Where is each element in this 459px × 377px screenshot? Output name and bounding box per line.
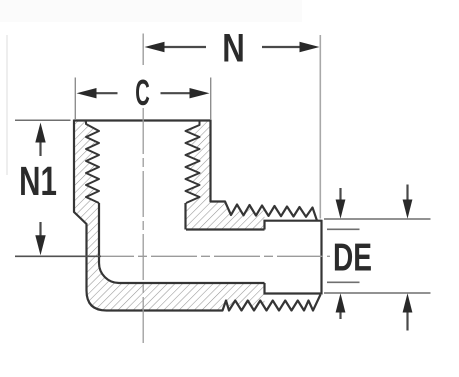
body outline: left outer wall, bottom face, bottom male threads <box>74 120 321 311</box>
body outline: bore bottom line <box>119 282 265 284</box>
vertical centerline <box>142 108 144 343</box>
svg-text:N: N <box>222 26 245 71</box>
faint top band artifact <box>0 0 302 22</box>
body outline: bottom thread root line and step <box>265 283 322 294</box>
DE arrow up far <box>406 310 408 331</box>
dimension DE extension line top <box>324 218 431 220</box>
svg-text:N1: N1 <box>19 158 57 204</box>
body outline: bore top line <box>186 228 265 230</box>
body outline: end face of side port <box>320 220 322 295</box>
dimension N1 arrowhead down <box>35 235 45 255</box>
dimension N arrowhead left <box>145 42 165 52</box>
dimension N1 shaft top <box>39 141 41 156</box>
dimension C shaft right <box>161 92 192 94</box>
hatched section: left and bottom wall <box>74 121 265 311</box>
dimension DE extension line bottom <box>324 292 431 294</box>
body outline: inner left wall and fillet <box>99 203 119 283</box>
female threads right wall <box>186 121 200 204</box>
body outline: right outer wall, step, top male threads <box>211 120 318 221</box>
body outline: inner right wall below threads <box>184 203 186 230</box>
dimension N1 extension line top <box>15 119 71 121</box>
dimension C extension line left <box>74 78 76 120</box>
dimension N1 shaft bottom <box>39 222 41 238</box>
DE inner stub line top <box>327 228 360 230</box>
horizontal centerline <box>88 255 330 257</box>
DE arrow down far <box>406 185 408 203</box>
dimension N shaft left <box>162 46 206 48</box>
dimension N1 arrowhead up <box>35 123 45 143</box>
DE arrow up near <box>339 310 341 319</box>
dimension C shaft left <box>95 92 118 94</box>
dimension C arrowhead right <box>190 88 210 98</box>
dimension N extension line left <box>142 34 144 66</box>
dimension C extension line right <box>210 78 212 120</box>
body outline: top face <box>74 119 211 121</box>
svg-text:C: C <box>135 73 149 114</box>
faint left edge line artifact <box>6 35 8 175</box>
female threads left wall <box>86 121 99 204</box>
DE inner stub line bottom <box>327 281 360 283</box>
dimension N shaft right <box>262 46 300 48</box>
DE arrow down near <box>339 188 341 202</box>
dimension C arrowhead left <box>77 88 97 98</box>
dimension N arrowhead right <box>300 42 320 52</box>
body outline: top thread root line and step <box>265 221 322 230</box>
dimension N extension line right <box>319 35 321 219</box>
hatched section: right wall and top wall of side port <box>186 121 265 230</box>
dimension N1 extension line bottom <box>15 255 101 257</box>
svg-text:DE: DE <box>333 236 372 280</box>
